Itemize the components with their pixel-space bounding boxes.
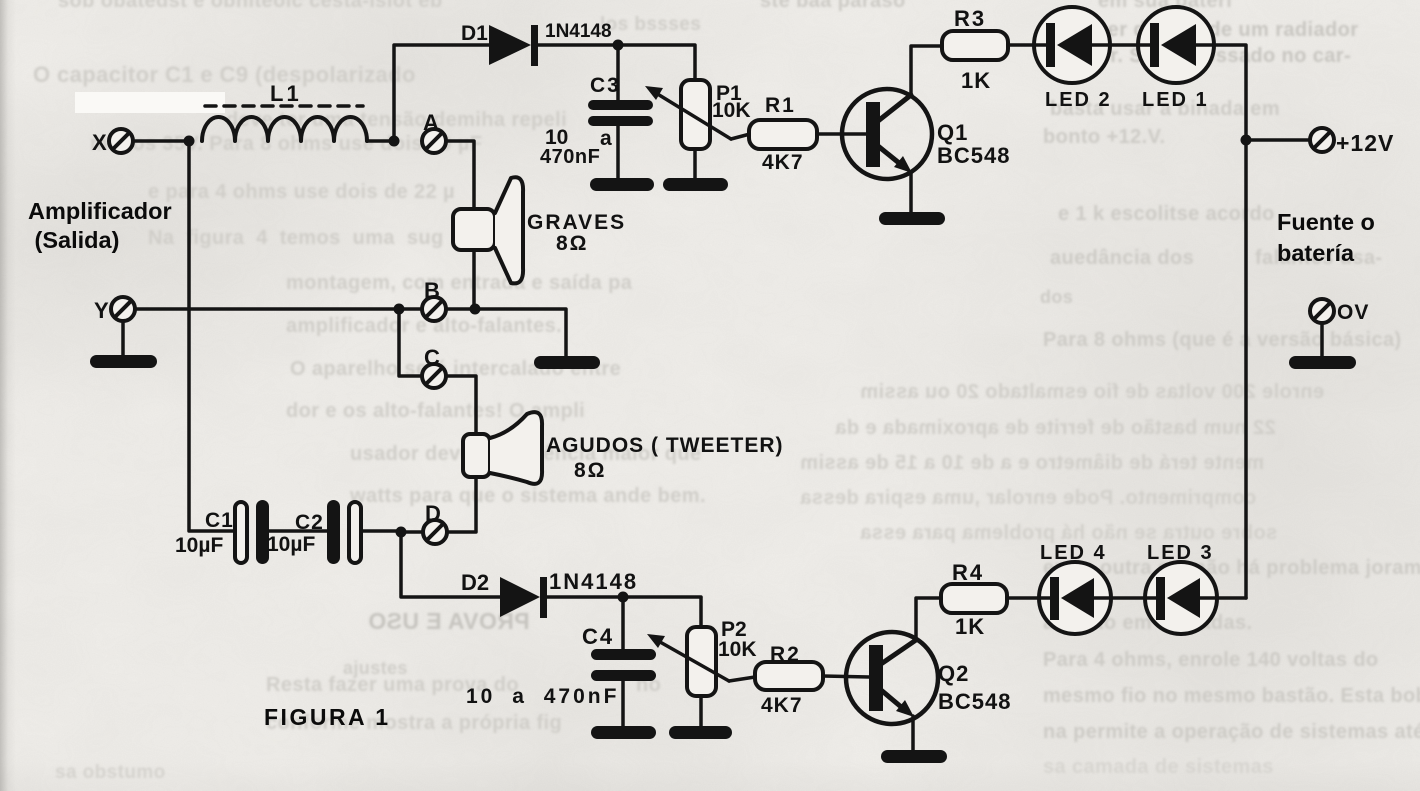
svg-text:C2: C2 (295, 511, 324, 534)
wire Q1 emitter to ground (909, 172, 913, 214)
svg-text:Q1: Q1 (937, 120, 968, 145)
svg-text:10 a 470nF: 10 a 470nF (466, 685, 619, 708)
svg-text:C: C (424, 345, 440, 370)
ground on B row (534, 356, 600, 369)
label FIGURA 1 (264, 703, 391, 731)
node at +12V tap (1241, 135, 1252, 146)
capacitor C2 10uF (267, 500, 361, 564)
wire node A up to D1 rail (394, 45, 489, 141)
ground under P2 (669, 726, 732, 739)
svg-text:BC548: BC548 (938, 689, 1011, 714)
faded ghost text, right column (760, 0, 906, 11)
svg-text:C3: C3 (590, 74, 621, 97)
node at C4 top (618, 592, 629, 603)
svg-text:Q2: Q2 (938, 661, 969, 686)
LED 3 (1145, 542, 1217, 634)
svg-text:C4: C4 (582, 624, 614, 649)
wire D2 cathode to P2 top (547, 595, 701, 599)
transistor Q2 BC548 (846, 632, 1011, 724)
wire C1 to C2 (269, 529, 328, 533)
svg-text:1N4148: 1N4148 (549, 569, 638, 594)
svg-text:BC548: BC548 (937, 143, 1010, 168)
svg-text:LED 3: LED 3 (1147, 542, 1214, 564)
svg-text:1N4148: 1N4148 (545, 21, 612, 42)
LED 1 (1138, 7, 1214, 111)
wire D1 cathode to P1 top (538, 45, 695, 80)
white patch above X terminal (75, 92, 225, 113)
diode D2 1N4148 (461, 569, 638, 618)
svg-text:AGUDOS ( TWEETER): AGUDOS ( TWEETER) (546, 434, 784, 457)
node junction on Y wire (394, 304, 405, 315)
LED 2 (1034, 7, 1112, 111)
wire supply rail right side (1214, 45, 1246, 598)
resistor R4 1K (941, 560, 1007, 639)
wire to +12V terminal (1246, 138, 1311, 142)
svg-text:L1: L1 (270, 81, 302, 106)
svg-text:R3: R3 (954, 6, 986, 31)
wire R3 to LED2 (1008, 43, 1035, 47)
svg-text:D: D (425, 501, 441, 526)
capacitor C1 10uF (175, 500, 269, 564)
wire Q2 base to R2 (823, 676, 869, 677)
node junction under speaker (470, 304, 481, 315)
wire rail corner to LED3 (1217, 596, 1246, 600)
svg-text:10µF: 10µF (267, 533, 315, 556)
diode D1 1N4148 (461, 21, 612, 66)
svg-text:4K7: 4K7 (761, 694, 803, 717)
svg-text:D1: D1 (461, 22, 488, 45)
svg-text:C1: C1 (205, 509, 234, 532)
svg-text:1K: 1K (961, 68, 991, 93)
wire C2 to node D row (361, 529, 403, 533)
ground under Q2 (881, 750, 947, 763)
terminal 0V (1310, 299, 1369, 357)
node A junction (389, 136, 400, 147)
wire node to terminal D (401, 530, 423, 534)
svg-text:+12V: +12V (1336, 130, 1394, 156)
resistor R1 4K7 (749, 94, 817, 174)
potentiometer P2 10K (647, 598, 757, 728)
wire LED3 to LED4 (1111, 596, 1145, 600)
node junction on X wire (184, 136, 195, 147)
svg-text:R1: R1 (765, 94, 796, 117)
wire X to node (133, 139, 192, 143)
svg-text:10K: 10K (718, 638, 757, 661)
capacitor C4 (466, 597, 656, 728)
svg-text:1K: 1K (955, 614, 985, 639)
wire P2 wiper to R2 (729, 677, 755, 681)
terminal +12V (1310, 128, 1394, 156)
ground under Q1 (879, 212, 945, 225)
svg-text:X: X (92, 130, 107, 155)
svg-text:LED 4: LED 4 (1040, 542, 1107, 564)
terminal B (422, 278, 446, 321)
faded ghost text, left column (0, 0, 1420, 1)
wire node A to speaker top (446, 141, 474, 209)
terminal C (422, 345, 446, 388)
svg-text:D2: D2 (461, 570, 489, 595)
capacitor C3 (540, 45, 653, 180)
wire tweeter to terminal C (447, 376, 476, 434)
potentiometer P1 10K (645, 80, 751, 180)
terminal Y (94, 297, 135, 323)
svg-text:10K: 10K (712, 99, 751, 122)
svg-text:GRAVES: GRAVES (527, 211, 626, 234)
ground under C3 (590, 178, 654, 191)
svg-text:a: a (600, 127, 612, 150)
svg-text:10µF: 10µF (175, 534, 223, 557)
wire Y to terminal B (135, 307, 422, 311)
LED 4 (1039, 542, 1111, 634)
speaker GRAVES woofer (453, 177, 626, 283)
inductor L1 (202, 81, 367, 141)
wire speaker to node B (472, 250, 476, 309)
terminal D (423, 501, 447, 544)
ground under Y (90, 355, 157, 368)
svg-text:B: B (424, 278, 440, 303)
ground under 0V (1289, 356, 1356, 369)
wire vertical X node down to C1 (189, 141, 235, 531)
wire D2 row from node to diode (401, 532, 500, 597)
wire R1 to Q1 base (817, 132, 866, 136)
svg-text:4K7: 4K7 (762, 151, 804, 174)
wire Q2 emitter to ground (911, 716, 915, 752)
node junction C2/D (396, 527, 407, 538)
svg-text:8Ω: 8Ω (574, 459, 607, 482)
svg-text:R4: R4 (952, 560, 984, 585)
ground under C4 (591, 726, 656, 739)
svg-text:R2: R2 (770, 643, 801, 666)
resistor R3 1K (942, 6, 1008, 93)
wire terminal D to tweeter (447, 477, 476, 532)
resistor R2 4K7 (755, 643, 823, 717)
wire LED2 to LED1 (1110, 43, 1139, 47)
wire terminal C to B node (399, 309, 422, 376)
svg-text:470nF: 470nF (540, 146, 600, 168)
ground under P1 (663, 178, 728, 191)
wire L1 to node A (367, 139, 394, 143)
svg-text:Y: Y (94, 298, 109, 323)
wire B to ground corner (446, 309, 566, 357)
wire P1 wiper to R1 (731, 134, 750, 139)
svg-text:A: A (423, 110, 439, 135)
wire Q1 collector to R3 (911, 46, 942, 95)
wire LED4 to R4 (1007, 596, 1039, 600)
svg-text:OV: OV (1337, 301, 1369, 324)
terminal A (422, 110, 446, 153)
svg-text:LED 2: LED 2 (1045, 89, 1112, 111)
svg-text:LED 1: LED 1 (1142, 89, 1209, 111)
terminal X (92, 129, 133, 155)
wire R4 to Q2 collector (916, 598, 941, 640)
label Fuente o bateria (1277, 207, 1375, 269)
svg-text:8Ω: 8Ω (556, 232, 589, 255)
label Amplificador (Salida) (28, 197, 172, 254)
transistor Q1 BC548 (842, 89, 1010, 179)
wire Y to ground (121, 321, 125, 356)
node at C3 top (613, 40, 624, 51)
speaker AGUDOS tweeter (463, 412, 784, 484)
